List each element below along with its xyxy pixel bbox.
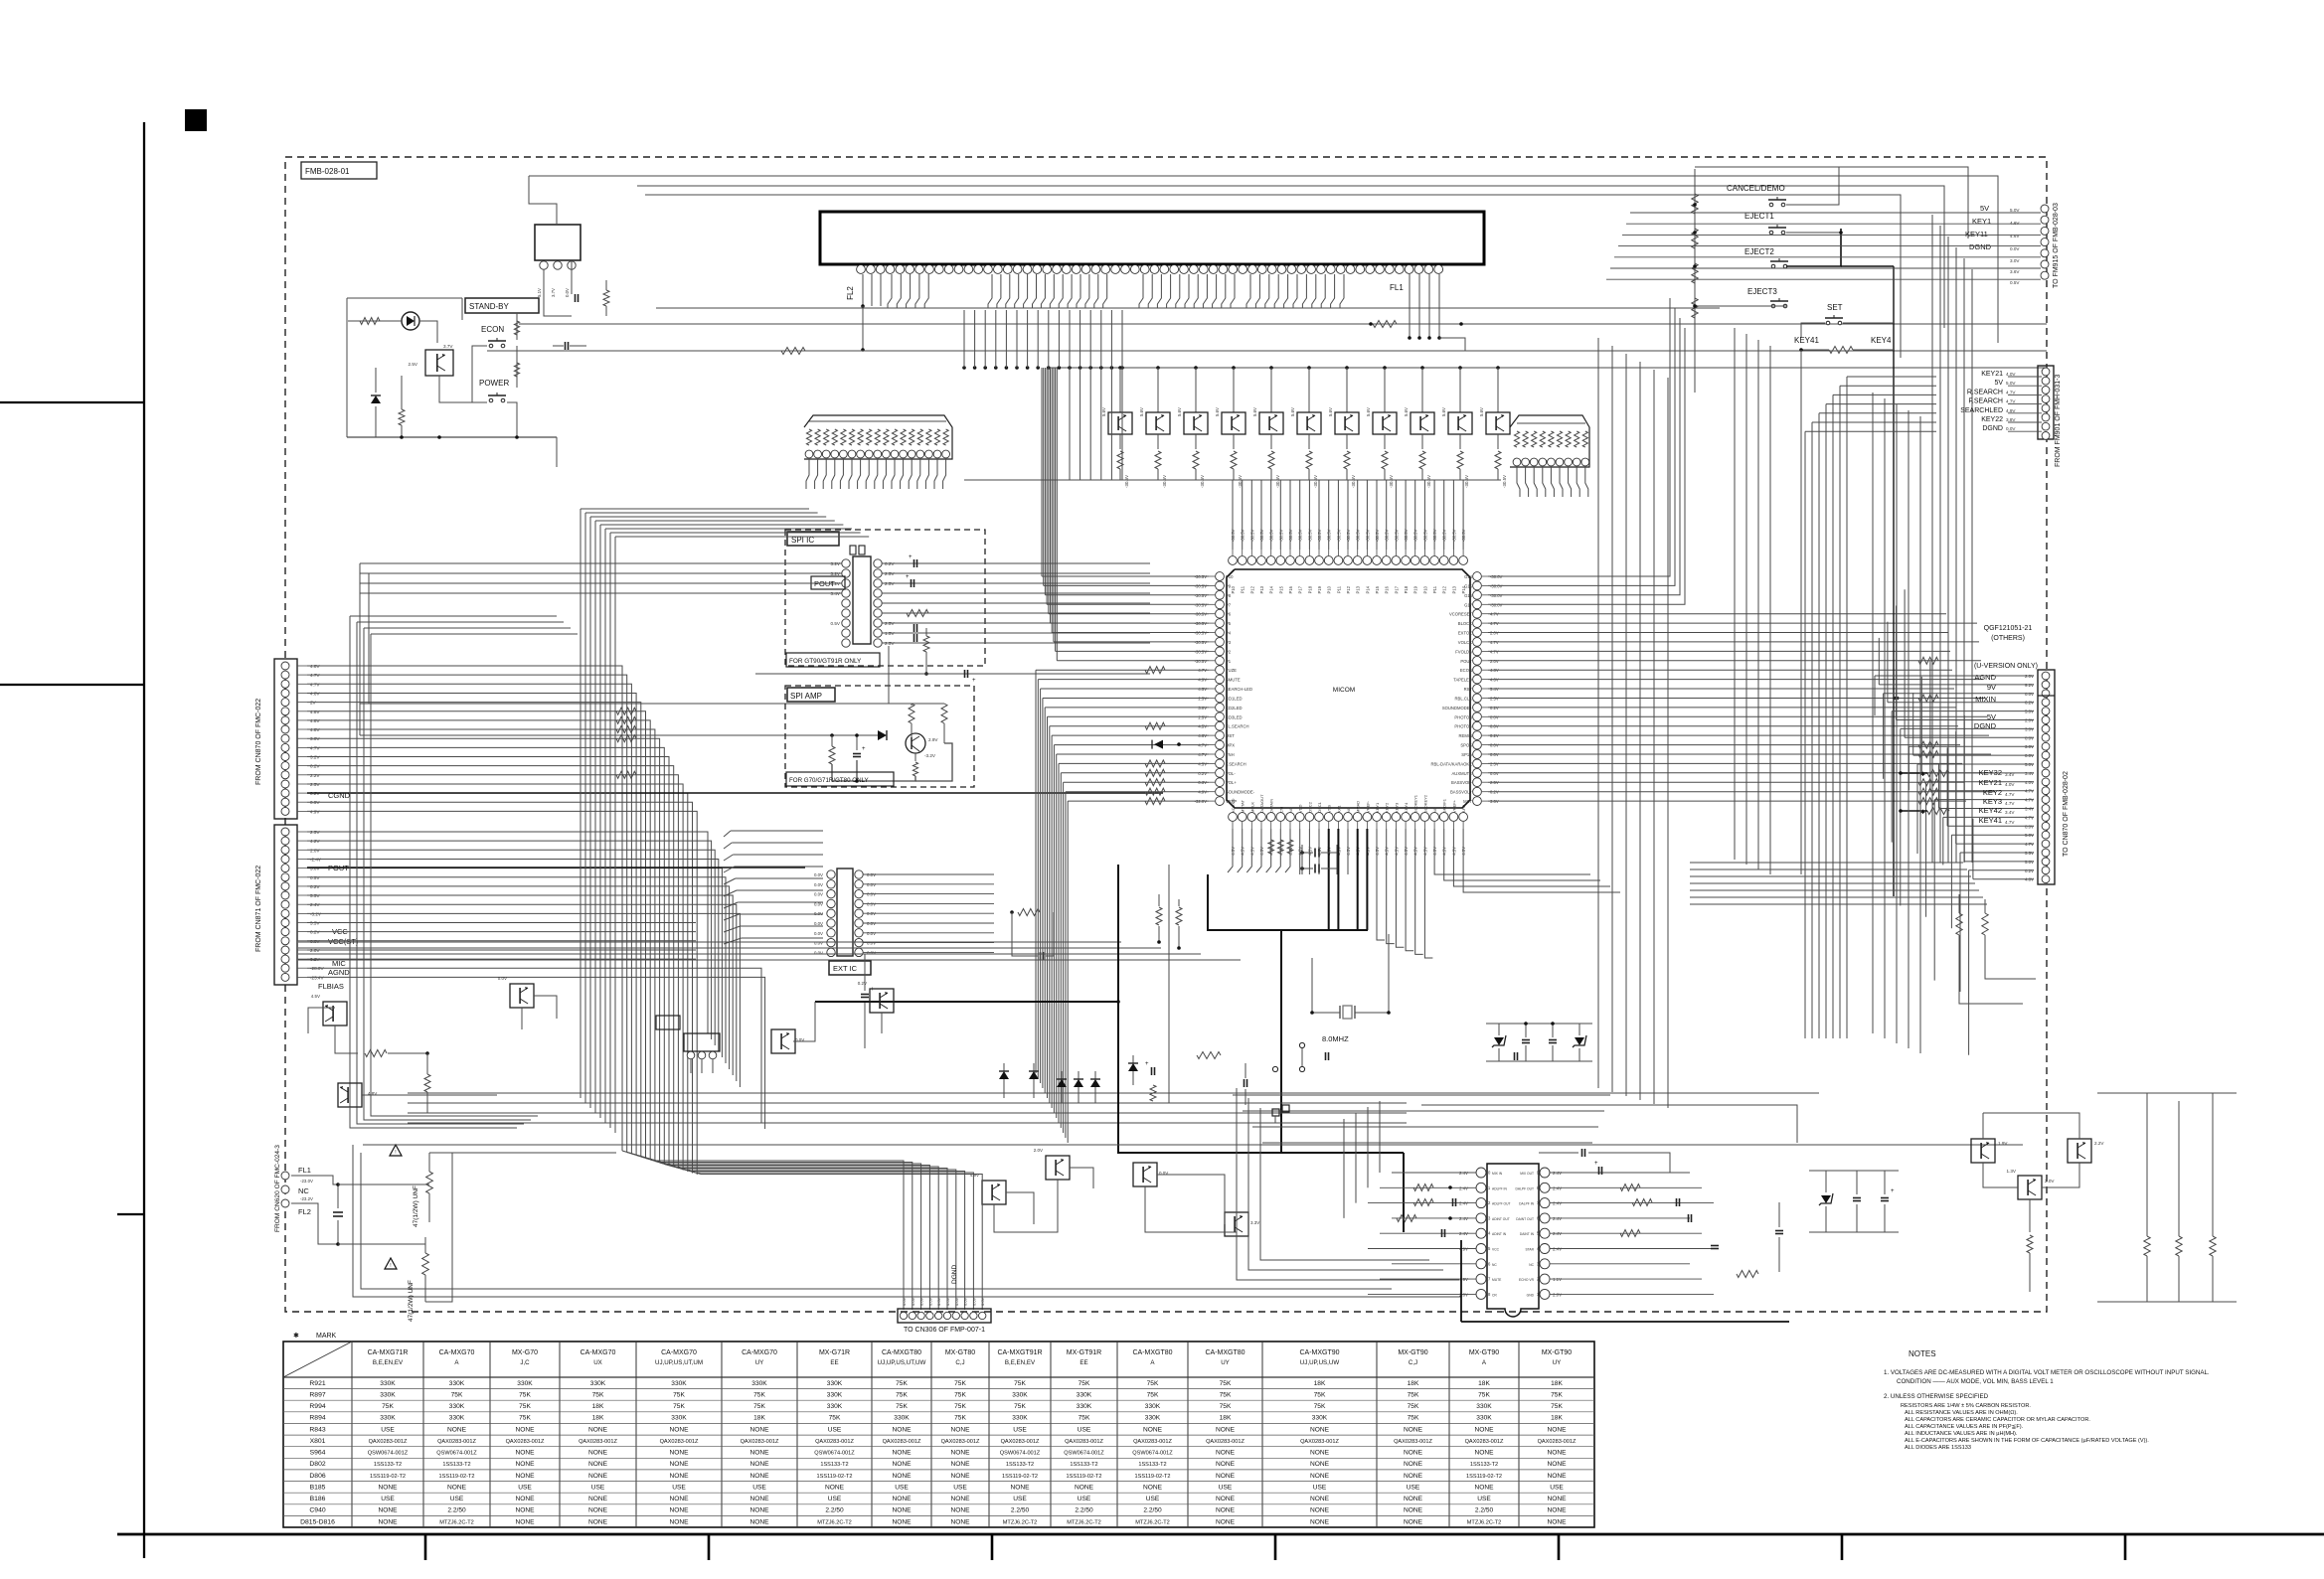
FL1 pin drops	[1409, 274, 1411, 338]
svg-text:QGF121051-21: QGF121051-21	[1984, 625, 2033, 632]
svg-text:MX-GT90: MX-GT90	[1398, 1349, 1427, 1356]
svg-text:NONE: NONE	[669, 1518, 689, 1525]
svg-text:NONE: NONE	[1143, 1484, 1163, 1491]
svg-text:-30.5V: -30.5V	[1432, 529, 1437, 542]
table diagonal	[283, 1342, 352, 1377]
SPI IC right pins	[874, 559, 882, 567]
op-amp U SPI IC body	[853, 556, 871, 644]
svg-text:18K: 18K	[1314, 1380, 1326, 1387]
svg-text:NONE: NONE	[1310, 1496, 1330, 1502]
svg-text:2.2/50: 2.2/50	[1143, 1507, 1162, 1514]
svg-text:2.2/50: 2.2/50	[1075, 1507, 1093, 1514]
svg-text:NONE: NONE	[669, 1496, 689, 1502]
svg-text:330K: 330K	[380, 1392, 396, 1399]
svg-text:NONE: NONE	[749, 1426, 769, 1433]
svg-text:USE: USE	[828, 1426, 842, 1433]
svg-text:75K: 75K	[519, 1403, 531, 1410]
svg-text:QSW0674-001Z: QSW0674-001Z	[814, 1451, 855, 1457]
transistor Q echo3	[2068, 1139, 2091, 1163]
svg-text:75K: 75K	[673, 1403, 685, 1410]
svg-text:330K: 330K	[671, 1415, 687, 1422]
svg-text:-30.5V: -30.5V	[1346, 529, 1351, 542]
svg-text:0.0V: 0.0V	[814, 950, 823, 955]
svg-text:NONE: NONE	[1547, 1496, 1567, 1502]
zener D z3	[1575, 1037, 1584, 1045]
svg-text:1.1V: 1.1V	[1553, 1277, 1562, 1282]
svg-text:1SS133-T2: 1SS133-T2	[1138, 1462, 1166, 1468]
svg-text:QAX0283-001Z: QAX0283-001Z	[883, 1439, 921, 1445]
svg-text:QAX0283-001Z: QAX0283-001Z	[579, 1439, 617, 1445]
svg-text:3.4V: 3.4V	[2005, 772, 2015, 777]
wire standby mesh	[347, 297, 462, 299]
svg-text:0.0V: 0.0V	[2010, 246, 2020, 251]
svg-text:SPI AMP: SPI AMP	[790, 692, 822, 701]
MICOM bottom pin row	[1229, 813, 1238, 822]
svg-text:3.6V: 3.6V	[2010, 269, 2020, 274]
switch S eject1	[1769, 231, 1773, 235]
svg-text:4.7V: 4.7V	[2005, 792, 2015, 797]
svg-text:QAX0283-001Z: QAX0283-001Z	[437, 1439, 476, 1445]
svg-text:MX-G71R: MX-G71R	[819, 1349, 850, 1356]
svg-text:MIX OUT: MIX OUT	[1520, 1172, 1534, 1176]
svg-text:TO CN306 OF FMP-007-1: TO CN306 OF FMP-007-1	[904, 1327, 985, 1334]
svg-text:MCLK: MCLK	[1249, 802, 1254, 813]
svg-text:NONE: NONE	[1310, 1450, 1330, 1457]
svg-text:P10: P10	[1226, 574, 1234, 579]
svg-text:5V: 5V	[1994, 380, 2003, 387]
svg-text:P16: P16	[1385, 585, 1390, 593]
svg-text:FL1: FL1	[1390, 283, 1404, 292]
ground symbol pair	[1272, 1109, 1279, 1116]
svg-text:75K: 75K	[829, 1415, 841, 1422]
svg-text:TAPELED: TAPELED	[1453, 678, 1472, 683]
svg-text:330K: 330K	[1077, 1392, 1092, 1399]
svg-text:1.9V: 1.9V	[1998, 1141, 2008, 1146]
svg-text:CD1LED: CD1LED	[1226, 697, 1243, 702]
svg-text:KEY3: KEY3	[1394, 802, 1399, 813]
resistor R mid1	[1197, 1052, 1221, 1059]
svg-text:ADLPF IN: ADLPF IN	[1492, 1186, 1507, 1190]
svg-text:-30.5V: -30.5V	[1385, 529, 1390, 542]
svg-text:S964: S964	[310, 1450, 326, 1457]
svg-text:FL.SEARCH: FL.SEARCH	[1226, 724, 1249, 729]
svg-text:0.5V: 0.5V	[831, 621, 841, 626]
svg-text:NONE: NONE	[892, 1426, 912, 1433]
svg-text:QAX0283-001Z: QAX0283-001Z	[369, 1439, 408, 1445]
svg-text:P13: P13	[1451, 585, 1456, 593]
svg-text:NONE: NONE	[669, 1450, 689, 1457]
svg-text:4.5V: 4.5V	[1451, 847, 1456, 856]
svg-text:P3: P3	[1226, 640, 1232, 645]
svg-text:0.0V: 0.0V	[936, 1297, 941, 1306]
switch S set	[1826, 321, 1830, 325]
svg-text:USE: USE	[895, 1484, 909, 1491]
svg-text:9V: 9V	[1987, 683, 1996, 692]
capacitors echo left	[1452, 1198, 1454, 1206]
svg-text:TUZE: TUZE	[1226, 668, 1237, 673]
wire	[544, 269, 572, 316]
resistor R key42	[1927, 808, 1949, 815]
svg-text:75K: 75K	[1079, 1415, 1090, 1422]
svg-text:P12: P12	[1249, 585, 1254, 593]
wire bundle bottoms to CN306	[622, 1151, 904, 1242]
SPI IC wires left	[360, 562, 842, 564]
svg-text:0.0V: 0.0V	[867, 931, 876, 936]
svg-text:NONE: NONE	[950, 1450, 970, 1457]
svg-text:0.0V: 0.0V	[814, 931, 823, 936]
svg-text:R994: R994	[309, 1403, 325, 1410]
svg-text:✱: ✱	[1920, 771, 1925, 778]
svg-text:QAX0283-001Z: QAX0283-001Z	[506, 1439, 545, 1445]
svg-text:GND: GND	[1527, 1293, 1535, 1297]
svg-text:NONE: NONE	[892, 1518, 912, 1525]
svg-text:0.0V: 0.0V	[911, 1297, 915, 1306]
svg-text:-30.5V: -30.5V	[1278, 530, 1283, 543]
svg-text:USE: USE	[381, 1496, 395, 1502]
svg-text:4.5V: 4.5V	[311, 994, 320, 999]
svg-text:NONE: NONE	[588, 1426, 608, 1433]
svg-text:75K: 75K	[519, 1392, 531, 1399]
svg-text:330K: 330K	[449, 1403, 465, 1410]
svg-text:VDD: VDD	[1298, 804, 1303, 813]
left bundle verticals	[1035, 670, 1037, 1073]
resistor R on rail y353	[781, 348, 805, 355]
svg-text:NONE: NONE	[1404, 1473, 1423, 1480]
svg-text:(U-VERSION ONLY): (U-VERSION ONLY)	[1974, 663, 2038, 670]
svg-text:UJ,UP,US,UT,UM: UJ,UP,US,UT,UM	[655, 1359, 703, 1366]
svg-text:MX-GT90: MX-GT90	[1469, 1349, 1499, 1356]
board label box FMB-028-01	[301, 162, 377, 179]
diode D row2	[1033, 1063, 1035, 1098]
echo bottom rail	[1461, 1321, 1789, 1323]
capacitor C spi1	[913, 559, 915, 567]
svg-text:-30.5V: -30.5V	[1422, 529, 1427, 542]
svg-text:-30.5V: -30.5V	[1249, 529, 1254, 542]
svg-text:330K: 330K	[590, 1380, 606, 1387]
bottom border line	[117, 1533, 2324, 1536]
svg-text:FL2: FL2	[298, 1207, 311, 1216]
svg-text:0.0V: 0.0V	[814, 872, 823, 877]
svg-text:+: +	[1145, 1061, 1149, 1067]
svg-text:SLDKEY2: SLDKEY2	[1422, 794, 1427, 813]
svg-text:CONDITION —— AUX MODE, VOL M: CONDITION —— AUX MODE, VOL MIN, BASS LEV…	[1897, 1378, 2054, 1385]
svg-text:1.5V: 1.5V	[885, 631, 895, 636]
bottom left big loop 2	[361, 1153, 1392, 1289]
svg-text:D815-D816: D815-D816	[300, 1518, 335, 1525]
SPI AMP label box	[787, 688, 835, 702]
svg-text:UY: UY	[1553, 1359, 1562, 1366]
svg-text:-3.2V: -3.2V	[924, 753, 936, 758]
svg-text:X801: X801	[310, 1438, 326, 1445]
EXT IC left pins	[827, 870, 835, 878]
SPI IC dashed box	[785, 530, 985, 666]
far right rails	[2097, 1092, 2237, 1094]
svg-text:2.5V: 2.5V	[885, 621, 895, 626]
svg-text:NONE: NONE	[1474, 1450, 1494, 1457]
svg-text:330K: 330K	[1012, 1415, 1028, 1422]
svg-text:SEARCH-LED: SEARCH-LED	[1226, 687, 1252, 692]
svg-text:NONE: NONE	[669, 1473, 689, 1480]
resistor R standby base	[399, 409, 405, 425]
echo left feed verticals	[1379, 1101, 1381, 1173]
resistors echo right	[1620, 1184, 1640, 1191]
svg-text:C,J: C,J	[955, 1359, 964, 1366]
echo IC left pins	[1476, 1168, 1486, 1178]
FL display glass FL1	[820, 212, 1484, 264]
svg-text:75K: 75K	[954, 1392, 966, 1399]
svg-text:NONE: NONE	[515, 1496, 535, 1502]
svg-text:NONE: NONE	[447, 1484, 467, 1491]
svg-text:4.5V: 4.5V	[1249, 847, 1254, 856]
svg-text:P18: P18	[1404, 585, 1409, 593]
bold rail 2	[815, 1001, 1118, 1003]
CN871 harness wires	[307, 832, 708, 1033]
right bundle2	[1734, 328, 1736, 860]
eject wiring	[1694, 169, 1696, 177]
svg-text:4.0V: 4.0V	[2006, 372, 2016, 377]
svg-text:KEY21: KEY21	[1981, 371, 2003, 378]
mid horizontal bus pack	[298, 941, 1121, 943]
bold vertical at 1176	[1168, 865, 1170, 1103]
POUT long wire	[307, 867, 805, 868]
connector CN870 FROM CN870 OF FMC-022	[274, 659, 297, 819]
svg-text:POWER: POWER	[479, 379, 509, 388]
wires b transistors	[994, 1180, 1058, 1232]
svg-text:VCORESET: VCORESET	[1449, 612, 1472, 617]
svg-text:FL2: FL2	[846, 286, 855, 300]
svg-text:5.6V: 5.6V	[1252, 407, 1257, 416]
resistor R ext	[1018, 909, 1040, 916]
wire bundle to CN306	[903, 1242, 905, 1310]
svg-text:5.6V: 5.6V	[1101, 407, 1106, 416]
svg-text:NONE: NONE	[378, 1484, 398, 1491]
svg-text:18: 18	[1486, 1292, 1491, 1297]
svg-text:5.6V: 5.6V	[1139, 407, 1144, 416]
svg-text:P16: P16	[1288, 585, 1293, 593]
svg-text:0.0V: 0.0V	[814, 921, 823, 926]
svg-text:NONE: NONE	[588, 1450, 608, 1457]
svg-text:FROM CN871 OF FMC-022: FROM CN871 OF FMC-022	[255, 866, 262, 952]
svg-text:75K: 75K	[954, 1403, 966, 1410]
svg-text:P14: P14	[1365, 585, 1370, 593]
svg-text:BASSVOL-: BASSVOL-	[1451, 780, 1473, 785]
svg-text:NC: NC	[1346, 807, 1351, 813]
svg-text:QAX0283-001Z: QAX0283-001Z	[1001, 1439, 1040, 1445]
svg-text:-30.5V: -30.5V	[1269, 529, 1274, 542]
svg-text:EXTOE: EXTOE	[1458, 631, 1472, 636]
svg-text:UJ,UP,US,UW: UJ,UP,US,UW	[1300, 1359, 1340, 1366]
svg-text:3.4V: 3.4V	[2005, 810, 2015, 815]
underline wires fm915	[1963, 212, 2041, 214]
svg-text:DGND: DGND	[1969, 242, 1992, 251]
FOR G70/G71R/GT80 ONLY box	[786, 772, 894, 786]
svg-text:NONE: NONE	[749, 1507, 769, 1514]
svg-text:75K: 75K	[592, 1392, 604, 1399]
svg-text:75K: 75K	[896, 1392, 908, 1399]
bottom border tick x713	[708, 1534, 711, 1560]
svg-text:QAX0283-001Z: QAX0283-001Z	[1133, 1439, 1172, 1445]
svg-text:D806: D806	[309, 1473, 325, 1480]
svg-text:!: !	[390, 1263, 391, 1269]
transistor Q b2	[1046, 1156, 1070, 1180]
svg-text:2.2/50: 2.2/50	[1011, 1507, 1030, 1514]
svg-text:75K: 75K	[1147, 1392, 1159, 1399]
wire key32	[1901, 772, 1927, 774]
svg-text:NONE: NONE	[892, 1496, 912, 1502]
corner index square	[185, 109, 207, 131]
svg-text:NONE: NONE	[1404, 1426, 1423, 1433]
svg-text:75K: 75K	[753, 1392, 765, 1399]
capacitor C osc1	[1314, 849, 1316, 858]
svg-text:47(1/2W) UNF: 47(1/2W) UNF	[408, 1280, 415, 1322]
svg-text:USE: USE	[828, 1496, 842, 1502]
svg-text:ADLPF OUT: ADLPF OUT	[1492, 1202, 1511, 1206]
svg-text:4.5V: 4.5V	[1442, 847, 1447, 856]
transistor Q c5	[771, 1029, 795, 1053]
svg-text:NONE: NONE	[669, 1507, 689, 1514]
power-supply block top-left	[535, 225, 581, 260]
svg-text:17: 17	[1486, 1277, 1491, 1282]
svg-text:-30.5V: -30.5V	[1275, 475, 1280, 488]
svg-text:330K: 330K	[1145, 1415, 1161, 1422]
svg-text:CA-MXGT91R: CA-MXGT91R	[997, 1349, 1042, 1356]
electrolytic C echo	[1598, 1167, 1600, 1175]
svg-text:NONE: NONE	[669, 1461, 689, 1468]
svg-text:SOUNDMODE+: SOUNDMODE+	[1442, 706, 1473, 711]
svg-text:RST: RST	[1464, 687, 1473, 692]
svg-text:4.0V: 4.0V	[2005, 782, 2015, 787]
svg-text:NC: NC	[1492, 1263, 1497, 1267]
svg-text:USE: USE	[1313, 1484, 1327, 1491]
svg-text:R843: R843	[309, 1426, 325, 1433]
left border tick y405	[0, 401, 144, 403]
diode D standby	[375, 368, 377, 393]
svg-text:P13: P13	[1356, 585, 1361, 593]
POUT label box SPI	[811, 576, 845, 589]
MICOM left fan wires upper	[1042, 575, 1209, 577]
diode D row3	[1061, 1071, 1063, 1103]
svg-text:ALL CAPACITORS ARE CERAMIC CAP: ALL CAPACITORS ARE CERAMIC CAPACITOR OR …	[1905, 1417, 2090, 1423]
svg-text:330K: 330K	[671, 1380, 687, 1387]
svg-text:NOTES: NOTES	[1909, 1349, 1936, 1358]
svg-text:CR: CR	[1492, 1293, 1497, 1297]
resistor R spi5	[923, 636, 929, 652]
svg-text:0.0V: 0.0V	[971, 1297, 976, 1306]
svg-text:-30.5V: -30.5V	[1162, 475, 1167, 488]
svg-text:0.0V: 0.0V	[565, 288, 570, 297]
svg-text:FROM FM901 OF FMH-031-3: FROM FM901 OF FMH-031-3	[2055, 375, 2062, 467]
svg-text:CANCEL/DEMO: CANCEL/DEMO	[1727, 184, 1785, 193]
svg-text:MTZJ6.2C-T2: MTZJ6.2C-T2	[1003, 1519, 1038, 1525]
svg-text:3.7V: 3.7V	[443, 344, 453, 349]
svg-text:75K: 75K	[1220, 1403, 1232, 1410]
svg-text:1SS119-02-T2: 1SS119-02-T2	[1135, 1474, 1171, 1480]
ECON switch S	[489, 344, 493, 348]
svg-text:P18: P18	[1307, 585, 1312, 593]
svg-text:NONE: NONE	[1547, 1473, 1567, 1480]
svg-text:0.0V: 0.0V	[945, 1297, 950, 1306]
svg-text:NONE: NONE	[588, 1461, 608, 1468]
svg-text:NONE: NONE	[749, 1496, 769, 1502]
svg-text:0.0V: 0.0V	[498, 976, 507, 981]
svg-text:TNH: TNH	[1226, 752, 1235, 757]
svg-text:+: +	[862, 746, 866, 752]
svg-text:330K: 330K	[827, 1403, 843, 1410]
FOR GT90/GT91R ONLY box	[786, 653, 880, 667]
svg-text:R.SEARCH: R.SEARCH	[1967, 389, 2003, 395]
svg-text:KEY4: KEY4	[1404, 802, 1409, 813]
svg-text:2.9V: 2.9V	[928, 737, 938, 742]
svg-text:P11: P11	[1432, 585, 1437, 593]
svg-text:P10: P10	[1422, 585, 1427, 593]
svg-text:MST: MST	[1226, 733, 1235, 738]
svg-text:12: 12	[1486, 1200, 1491, 1205]
svg-text:330K: 330K	[380, 1415, 396, 1422]
svg-text:✱: ✱	[1920, 809, 1925, 816]
svg-text:18K: 18K	[753, 1415, 765, 1422]
svg-text:J,C: J,C	[520, 1359, 530, 1366]
svg-text:0.0V: 0.0V	[814, 941, 823, 946]
svg-text:KEY32: KEY32	[1979, 768, 2002, 777]
micom top pin comb verticals	[1232, 480, 1234, 550]
svg-text:0.0V: 0.0V	[927, 1297, 932, 1306]
FL pin drop bundle B	[888, 274, 892, 308]
svg-text:(OTHERS): (OTHERS)	[1991, 635, 2025, 642]
resistors echo left	[1413, 1184, 1433, 1191]
svg-text:P14: P14	[1269, 585, 1274, 593]
svg-text:KEY4: KEY4	[1871, 336, 1892, 345]
svg-text:P15: P15	[1375, 585, 1380, 593]
capacitor C osc2	[1314, 865, 1316, 873]
svg-text:KEY21: KEY21	[1979, 778, 2002, 787]
svg-text:330K: 330K	[1077, 1403, 1092, 1410]
svg-text:USE: USE	[381, 1426, 395, 1433]
svg-text:NONE: NONE	[892, 1473, 912, 1480]
svg-text:75K: 75K	[1220, 1380, 1232, 1387]
svg-text:FLBIAS: FLBIAS	[318, 982, 344, 991]
svg-text:-30.5V: -30.5V	[1241, 529, 1245, 542]
svg-text:P19: P19	[1413, 585, 1418, 593]
svg-text:5.6V: 5.6V	[1177, 407, 1182, 416]
mid horizontal bus pack2	[408, 1092, 1407, 1094]
svg-text:FOR G70/G71R/GT80 ONLY: FOR G70/G71R/GT80 ONLY	[789, 777, 869, 784]
svg-text:MX-GT80: MX-GT80	[945, 1349, 975, 1356]
svg-text:NONE: NONE	[588, 1473, 608, 1480]
svg-text:CD2LED: CD2LED	[1226, 706, 1243, 711]
svg-text:KEY3: KEY3	[1983, 797, 2002, 806]
zener D echo1	[1825, 1171, 1827, 1192]
svg-text:UY: UY	[755, 1359, 764, 1366]
svg-text:-30.5V: -30.5V	[1336, 529, 1341, 542]
svg-text:QAX0283-001Z: QAX0283-001Z	[1538, 1439, 1577, 1445]
svg-text:4.6V: 4.6V	[2010, 221, 2020, 226]
rail y370 with feeds	[1049, 367, 2047, 369]
svg-text:P19: P19	[1317, 585, 1322, 593]
svg-text:75K: 75K	[1551, 1392, 1563, 1399]
svg-text:0.0V: 0.0V	[867, 882, 876, 887]
svg-text:UX: UX	[593, 1359, 602, 1366]
svg-text:VOL-: VOL-	[1226, 771, 1236, 776]
wire	[419, 321, 437, 343]
svg-text:10: 10	[1486, 1171, 1491, 1176]
svg-text:-30.5V: -30.5V	[1464, 475, 1469, 488]
wire set	[1801, 323, 1825, 338]
connector CN871 FROM CN871 OF FMC-022	[274, 825, 297, 985]
svg-text:75K: 75K	[1551, 1403, 1563, 1410]
svg-text:330K: 330K	[827, 1392, 843, 1399]
svg-text:-23.0V: -23.0V	[300, 1179, 313, 1184]
svg-text:G14: G14	[1464, 574, 1473, 579]
